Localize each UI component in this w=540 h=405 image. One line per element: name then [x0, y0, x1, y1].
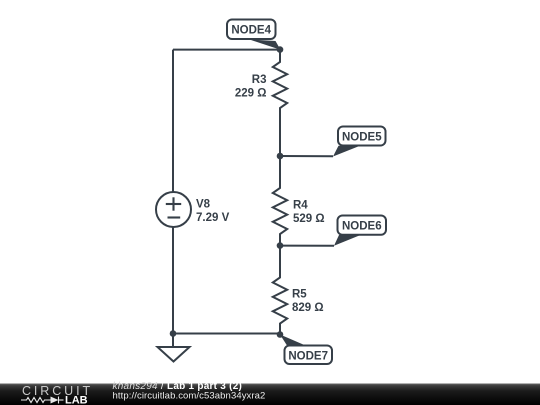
svg-text:R4: R4: [293, 200, 308, 212]
svg-text:NODE6: NODE6: [342, 220, 382, 232]
svg-text:829 Ω: 829 Ω: [292, 302, 324, 314]
callout NODE7: [280, 335, 332, 365]
callout NODE4: [227, 20, 281, 50]
wire: stub from NODE5 junction to callout: [280, 155, 333, 157]
node NODE4 junction dot: [277, 46, 284, 53]
junction dot: ground rail / V8: [170, 330, 177, 337]
node NODE6 junction dot: [277, 242, 284, 249]
wire: bottom horizontal from ground junction to NODE7: [173, 333, 280, 335]
svg-text:R3: R3: [252, 74, 267, 86]
footer bar: [0, 384, 540, 405]
wire: top horizontal from left corner to NODE4: [173, 49, 280, 51]
ground: [158, 334, 190, 362]
wire: stub from NODE6 junction to callout: [280, 245, 334, 247]
svg-text:229 Ω: 229 Ω: [235, 88, 267, 100]
wire: left vertical from top corner down to V8 top: [172, 50, 174, 192]
svg-text:NODE5: NODE5: [342, 131, 382, 143]
svg-text:R5: R5: [292, 289, 307, 301]
callout NODE6: [334, 216, 386, 246]
callout NODE5: [333, 127, 386, 157]
resistor R5: [273, 246, 287, 335]
svg-text:7.29 V: 7.29 V: [196, 212, 230, 224]
svg-text:http://circuitlab.com/c53abn34: http://circuitlab.com/c53abn34yxra2: [113, 391, 266, 402]
resistor R3: [273, 50, 287, 156]
voltage source V8: [156, 192, 191, 227]
svg-text:NODE7: NODE7: [288, 350, 328, 362]
resistor R4: [273, 156, 287, 246]
node NODE7 junction dot: [277, 331, 284, 338]
wire: V8 bottom vertical down to ground rail: [172, 227, 174, 334]
svg-text:NODE4: NODE4: [231, 25, 271, 37]
node NODE5 junction dot: [277, 153, 284, 160]
CircuitLab logo: resistor + diode glyph: [21, 397, 64, 404]
svg-text:LAB: LAB: [65, 395, 88, 405]
svg-text:529 Ω: 529 Ω: [293, 213, 325, 225]
svg-text:V8: V8: [196, 199, 211, 211]
